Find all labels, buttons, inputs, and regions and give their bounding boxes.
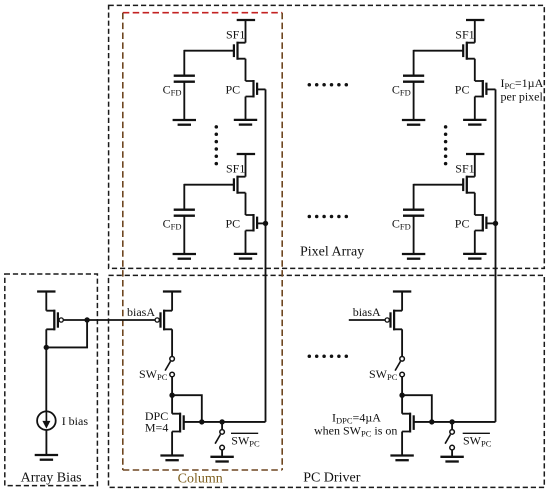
ellipsis dots right pixel column	[444, 125, 448, 165]
vdd bar (pixel 3)	[466, 19, 484, 21]
wire vdd to SF1 drain (pixel 2)	[245, 154, 247, 177]
wire SF1 gate to CFD node (pixel 1)	[184, 50, 234, 52]
transistor biasA (driver 1)	[155, 310, 172, 331]
capacitor CFD (pixel 2)	[174, 210, 195, 216]
ground CFD (pixel 3)	[402, 82, 425, 125]
svg-text:PC: PC	[455, 216, 470, 230]
svg-text:SF1: SF1	[226, 162, 245, 176]
pc driver dashed box	[109, 275, 545, 487]
wire CFD node down (pixel 2)	[183, 184, 185, 210]
transistor SF1 (pixel 4)	[463, 176, 475, 194]
node switch-DPC junction (driver 2)	[399, 393, 404, 398]
transistor DPC (driver 1)	[172, 413, 184, 433]
vdd bar (driver 2)	[393, 290, 411, 292]
switch SWPCbar (driver 2)	[451, 422, 453, 429]
ground SWPCbar (driver 1)	[210, 450, 233, 462]
wire PC column line (left column)	[265, 89, 267, 422]
transistor DPC (driver 2)	[402, 413, 414, 433]
node DPC gate tie (driver 1)	[199, 419, 204, 424]
current source I bias	[37, 411, 56, 430]
ground DPC source (driver 1)	[171, 432, 173, 456]
wire to current source (array bias)	[45, 347, 47, 411]
transistor PC (pixel 3)	[475, 80, 487, 98]
wire vdd to SF1 drain (pixel 1)	[245, 20, 247, 43]
wire SF1 gate to CFD node (pixel 4)	[414, 184, 464, 186]
node SWPCbar tie (driver 1)	[219, 419, 224, 424]
node switch-DPC junction (driver 1)	[169, 393, 174, 398]
column dashed box (red top edge, brown sides)	[123, 13, 282, 470]
wire SF1 gate to CFD node (pixel 3)	[414, 50, 464, 52]
wire vdd to bias transistor (array bias)	[45, 292, 47, 311]
node PC gate junction pixel 2	[263, 221, 268, 226]
transistor PC (pixel 4)	[475, 214, 487, 232]
capacitor CFD (pixel 3)	[403, 76, 424, 82]
transistor SF1 (pixel 2)	[234, 176, 246, 194]
wire vdd to SF1 drain (pixel 3)	[474, 20, 476, 43]
wire node to gate-tie corner (driver 2)	[402, 395, 432, 422]
ground PC source (pixel 1)	[234, 97, 257, 125]
wire biasA source to switch (driver 2)	[401, 329, 403, 356]
wire DPC gate (driver 2)	[414, 421, 452, 423]
wire vdd to SF1 drain (pixel 4)	[474, 154, 476, 177]
svg-text:PC: PC	[226, 216, 241, 230]
wire PC column line (right column)	[495, 89, 497, 422]
wire switch to node (driver 2)	[401, 377, 403, 395]
switch SWPCbar (driver 1)	[221, 422, 223, 429]
wire SF1 source to PC drain (pixel 2)	[245, 193, 247, 215]
wire PC gate to column line (pixel 2)	[257, 222, 265, 224]
svg-text:I bias: I bias	[62, 414, 89, 428]
svg-text:Pixel Array: Pixel Array	[300, 245, 364, 260]
ground PC source (pixel 4)	[463, 231, 486, 259]
node biasA junction	[84, 317, 89, 322]
wire SF1 gate to CFD node (pixel 2)	[184, 184, 234, 186]
ellipsis dots driver row	[308, 354, 349, 358]
ground PC source (pixel 2)	[234, 231, 257, 259]
svg-text:PC: PC	[226, 82, 241, 96]
node SWPCbar tie (driver 2)	[449, 419, 454, 424]
svg-text:SF1: SF1	[226, 28, 245, 42]
node drain-feedback junction (array bias)	[44, 345, 49, 350]
ellipsis dots pixel row 1	[308, 83, 349, 87]
wire node to DPC drain (driver 1)	[171, 395, 173, 414]
wire bias drain down (array bias)	[45, 329, 47, 347]
wire PC gate to column line (pixel 3)	[486, 88, 495, 90]
svg-text:SF1: SF1	[455, 162, 474, 176]
wire CFD node down (pixel 1)	[183, 50, 185, 76]
transistor PC (pixel 1)	[246, 80, 258, 98]
switch SWPC (driver 2)	[395, 357, 404, 377]
label SWPCbar (driver 2)	[463, 433, 492, 448]
ground SWPCbar (driver 2)	[440, 450, 463, 462]
svg-text:SF1: SF1	[455, 28, 474, 42]
array bias dashed box	[5, 274, 98, 486]
ground PC source (pixel 3)	[463, 97, 486, 125]
wire node to gate-tie corner (driver 1)	[172, 395, 202, 422]
wire biasA source to switch (driver 1)	[171, 329, 173, 356]
wire feedback gate-drain (array bias)	[46, 320, 87, 347]
ellipsis dots pixel row 2	[308, 215, 349, 219]
vdd bar (pixel 1)	[237, 19, 255, 21]
label SWPCbar (driver 1)	[231, 433, 260, 448]
svg-text:PC Driver: PC Driver	[303, 471, 361, 486]
transistor biasA (driver 2)	[385, 310, 402, 331]
ground CFD (pixel 4)	[402, 216, 425, 259]
node DPC gate tie (driver 2)	[429, 419, 434, 424]
svg-text:Column: Column	[178, 472, 223, 487]
wire SF1 source to PC drain (pixel 1)	[245, 59, 247, 81]
ground DPC source (driver 2)	[401, 432, 403, 456]
transistor SF1 (pixel 3)	[463, 42, 475, 60]
svg-text:PC: PC	[455, 82, 470, 96]
wire node to DPC drain (driver 2)	[401, 395, 403, 414]
transistor PC (pixel 2)	[246, 214, 258, 232]
wire SF1 source to PC drain (pixel 3)	[474, 59, 476, 81]
transistor SF1 (pixel 1)	[234, 42, 246, 60]
capacitor CFD (pixel 4)	[403, 210, 424, 216]
svg-text:M=4: M=4	[145, 421, 168, 435]
wire biasA gate stub (driver 2)	[349, 319, 385, 321]
wire biasA net (array bias gate to column driver)	[63, 319, 155, 321]
ground CFD (pixel 2)	[173, 216, 196, 259]
vdd bar (pixel 4)	[466, 153, 484, 155]
wire CFD node down (pixel 3)	[413, 50, 415, 76]
vdd bar (driver 1)	[163, 290, 181, 292]
svg-text:when SWPC is on: when SWPC is on	[314, 424, 397, 439]
svg-text:biasA: biasA	[353, 305, 381, 319]
vdd bar (pixel 2)	[237, 153, 255, 155]
wire DPC gate (driver 1)	[184, 421, 222, 423]
wire switch to node (driver 1)	[171, 377, 173, 395]
wire SF1 source to PC drain (pixel 4)	[474, 193, 476, 215]
switch SWPC (driver 1)	[165, 357, 174, 377]
wire CFD node down (pixel 4)	[413, 184, 415, 210]
wire vdd to biasA drain (driver 1)	[171, 292, 173, 311]
capacitor CFD (pixel 1)	[174, 76, 195, 82]
svg-text:biasA: biasA	[127, 305, 155, 319]
wire PC gate to column line (pixel 4)	[486, 222, 495, 224]
wire DPC gate to PC column line (driver 1)	[222, 421, 265, 423]
ground CFD (pixel 1)	[173, 82, 196, 125]
wire PC gate to column line (pixel 1)	[257, 88, 265, 90]
ground array bias	[35, 430, 58, 460]
wire vdd to biasA drain (driver 2)	[401, 292, 403, 311]
svg-text:per pixel: per pixel	[501, 89, 544, 103]
vdd bar (array bias)	[37, 290, 55, 292]
transistor array-bias diode-connected (array bias)	[46, 310, 63, 331]
node PC gate junction pixel 4	[493, 221, 498, 226]
wire DPC gate to PC column line (driver 2)	[452, 421, 495, 423]
pixel array dashed box	[109, 5, 545, 268]
ellipsis dots left pixel column	[215, 125, 219, 165]
svg-text:Array Bias: Array Bias	[21, 471, 82, 486]
